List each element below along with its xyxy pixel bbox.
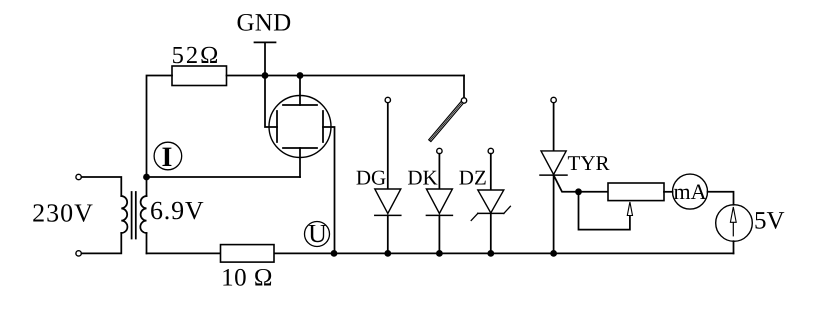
terminal switch pivot (461, 98, 466, 103)
tube V1 bottom plate (283, 148, 317, 177)
wire top bus (227, 75, 465, 77)
wire bottom bus (147, 252, 734, 254)
svg-text:DK: DK (407, 166, 437, 190)
diode DK (426, 154, 452, 254)
wire primary bottom lead (82, 233, 122, 253)
svg-text:DZ: DZ (459, 166, 487, 190)
svg-text:52Ω: 52Ω (172, 42, 221, 69)
diode DG (375, 103, 401, 253)
wire 52ohm left to transformer node (147, 76, 173, 178)
wire 5V to bottom bus (733, 241, 735, 253)
svg-text:6.9V: 6.9V (150, 196, 204, 225)
terminal primary top (76, 174, 81, 179)
terminal DG top (385, 97, 390, 102)
tube V1 right plate (323, 111, 335, 253)
wire primary top lead (82, 177, 122, 196)
resistor 52ohm (172, 66, 227, 86)
svg-text:5V: 5V (754, 208, 785, 235)
svg-text:GND: GND (236, 10, 291, 37)
node potentiometer gate junction (575, 188, 582, 195)
tube V1 envelope (269, 96, 331, 158)
node DZ junction (487, 250, 494, 257)
node U junction (331, 250, 338, 257)
wire mA to 5V source (708, 192, 734, 205)
transformer secondary winding (140, 196, 146, 233)
terminal primary bottom (76, 251, 81, 256)
svg-text:230V: 230V (32, 199, 94, 228)
meter I (154, 142, 182, 173)
potentiometer wiper arrow (627, 202, 632, 216)
tube V1 left plate (gate) (265, 76, 277, 143)
thyristor TYR (540, 103, 608, 253)
node TYR junction (550, 250, 557, 257)
node DK junction (436, 250, 443, 257)
transformer primary winding (121, 196, 127, 233)
svg-text:I: I (161, 142, 172, 173)
source 5V (716, 205, 753, 242)
svg-text:mA: mA (674, 179, 707, 204)
svg-text:DG: DG (356, 166, 386, 190)
wire tube bottom to transformer node (147, 176, 301, 178)
transformer core (132, 192, 136, 239)
terminal TYR top (551, 97, 556, 102)
potentiometer body (608, 183, 664, 201)
ground GND terminal bar (255, 41, 276, 43)
svg-text:U: U (308, 219, 327, 248)
node DG junction (384, 250, 391, 257)
meter U (305, 219, 330, 248)
node junction GND-gate (262, 72, 269, 79)
potentiometer wiper feedback wire (579, 192, 630, 230)
terminal DK top (437, 148, 442, 153)
meter mA (673, 174, 708, 209)
wire secondary top lead (146, 177, 148, 196)
terminal DZ top (488, 148, 493, 153)
switch blade (429, 101, 464, 141)
node transformer secondary top (143, 174, 150, 181)
wire top bus right drop to switch (463, 76, 465, 98)
svg-text:10 Ω: 10 Ω (221, 265, 273, 292)
node junction tube anode (297, 72, 304, 79)
resistor 10ohm (221, 245, 275, 263)
wire secondary bottom lead (146, 233, 148, 253)
tube V1 top plate (283, 76, 317, 106)
wire pot to mA (664, 191, 673, 193)
wire GND stub (264, 42, 266, 75)
zener diode DZ (471, 154, 510, 254)
svg-text:TYR: TYR (568, 151, 610, 175)
